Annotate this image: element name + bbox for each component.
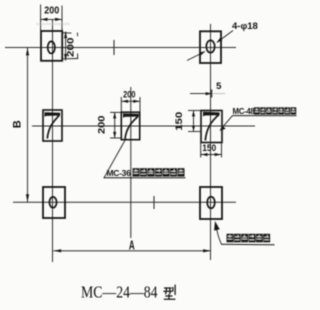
svg-text:5: 5	[216, 81, 222, 92]
svg-text:MC—24—84: MC—24—84	[81, 283, 158, 302]
svg-text:A: A	[129, 239, 135, 253]
svg-text:150: 150	[174, 112, 185, 131]
svg-text:200: 200	[44, 6, 59, 17]
svg-text:MC-48: MC-48	[233, 107, 256, 116]
svg-text:200: 200	[65, 37, 76, 57]
svg-text:200: 200	[97, 116, 108, 135]
svg-text:200: 200	[123, 90, 135, 100]
svg-text:B: B	[12, 120, 24, 128]
svg-text:150: 150	[202, 143, 216, 154]
svg-text:MC-36: MC-36	[107, 168, 132, 178]
svg-text:4-φ18: 4-φ18	[232, 21, 258, 32]
